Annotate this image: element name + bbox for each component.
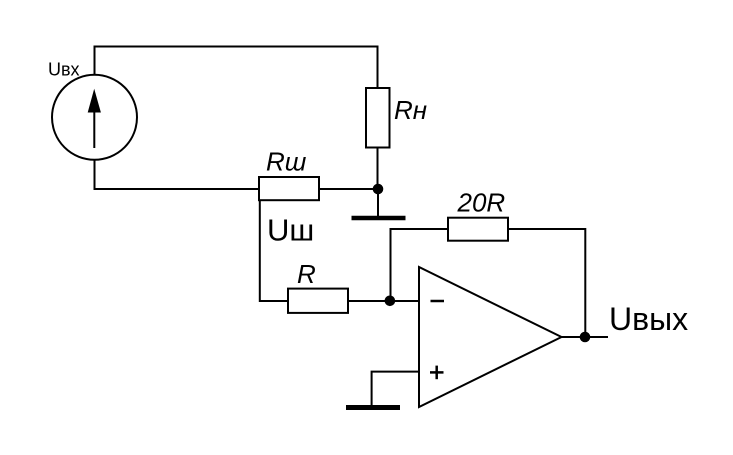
svg-text:Uвых: Uвых [609, 301, 688, 337]
svg-text:20R: 20R [457, 188, 506, 218]
svg-text:Rн: Rн [394, 95, 427, 125]
svg-text:R: R [297, 259, 316, 289]
svg-text:Uш: Uш [267, 213, 314, 248]
svg-text:Rш: Rш [266, 147, 307, 177]
svg-text:Uвх: Uвх [48, 60, 80, 80]
